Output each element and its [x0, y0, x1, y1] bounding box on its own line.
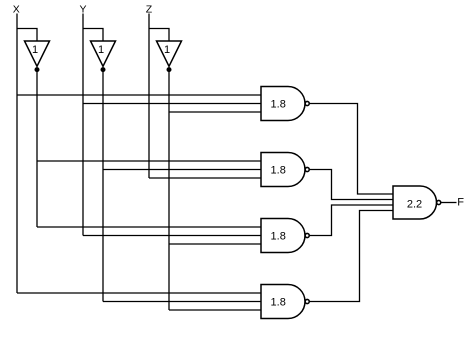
- wire Y' to NAND G2 input 2: [103, 169, 261, 171]
- wire G2 output to G5 input 2: [310, 170, 393, 200]
- inverter U1: [25, 41, 50, 72]
- svg-text:1.8: 1.8: [271, 98, 286, 110]
- svg-text:X: X: [13, 4, 20, 16]
- svg-text:1.8: 1.8: [271, 296, 286, 308]
- wire X to NAND G1 input 1: [17, 94, 261, 96]
- wire X input vertical: [16, 14, 18, 294]
- svg-text:1: 1: [32, 44, 38, 56]
- svg-text:2.2: 2.2: [407, 198, 422, 210]
- wire G5 output to F: [441, 202, 456, 204]
- wire X to NAND G4 input 1: [17, 292, 261, 294]
- inverter U3: [157, 41, 182, 72]
- wire Z input vertical: [148, 14, 150, 179]
- svg-text:1: 1: [164, 44, 170, 56]
- nand gate G1: [261, 87, 309, 121]
- inverter U2: [91, 41, 116, 72]
- wire Y input vertical: [82, 14, 84, 236]
- wire G3 output to G5 input 3: [310, 205, 393, 236]
- wire Z' vertical (U3 output): [168, 70, 170, 310]
- wire Z to NAND G2 input 3: [149, 177, 261, 179]
- wire Y to NAND G3 input 2: [83, 235, 261, 237]
- wire X' to NAND G3 input 1: [37, 226, 261, 228]
- wire X' vertical (U1 output): [36, 70, 38, 227]
- nand gate G3: [261, 219, 309, 253]
- wire Y' vertical (U2 output): [102, 70, 104, 302]
- wire Y branch to inverter U2 input: [83, 29, 103, 42]
- wire Z' to NAND G3 input 3: [169, 243, 261, 245]
- svg-text:1: 1: [98, 44, 104, 56]
- wire X branch to inverter U1 input: [17, 29, 37, 42]
- svg-text:F: F: [457, 196, 464, 208]
- wire Y' to NAND G4 input 2: [103, 301, 261, 303]
- wire Y to NAND G1 input 2: [83, 103, 261, 105]
- nand gate G2: [261, 153, 309, 187]
- wire G1 output to G5 input 1: [310, 104, 393, 195]
- wire X' to NAND G2 input 1: [37, 160, 261, 162]
- nand gate G5 (output gate): [393, 186, 441, 219]
- wire G4 output to G5 input 4: [310, 211, 393, 302]
- svg-text:1.8: 1.8: [271, 164, 286, 176]
- nand gate G4: [261, 285, 309, 319]
- wire Z' to NAND G1 input 3: [169, 111, 261, 113]
- wire Z branch to inverter U3 input: [149, 29, 169, 42]
- wire Z' to NAND G4 input 3: [169, 309, 261, 311]
- svg-text:1.8: 1.8: [271, 230, 286, 242]
